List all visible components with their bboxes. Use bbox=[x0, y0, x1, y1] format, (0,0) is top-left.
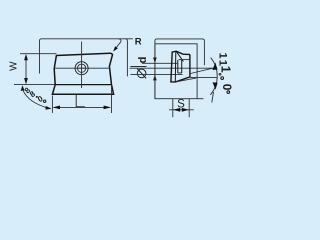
bottom-right projection line bbox=[190, 76, 217, 78]
hole top projection line bbox=[142, 62, 177, 64]
arrowhead R bbox=[113, 46, 118, 51]
arrow arc11 bottom bbox=[213, 82, 218, 89]
arrow d top (down) bbox=[153, 58, 157, 64]
slope diagonal bbox=[176, 51, 183, 61]
label 88.0deg degree circle bbox=[44, 100, 46, 102]
arrow d bottom (up) bbox=[153, 75, 157, 81]
hole bottom projection line bbox=[130, 73, 182, 75]
S extension right bbox=[188, 99, 190, 118]
arrow W top bbox=[24, 54, 28, 60]
L dimension line bbox=[54, 106, 111, 108]
extension line bottom (W / angle base) bbox=[14, 84, 55, 86]
hole outer circle bbox=[75, 62, 88, 75]
arrow arc top bbox=[21, 85, 25, 91]
L extension left bbox=[51, 96, 53, 114]
L extension right bbox=[111, 85, 113, 113]
internal edge line bbox=[55, 84, 112, 86]
svg-text:d: d bbox=[137, 57, 149, 64]
projection box side view bbox=[155, 44, 197, 99]
svg-text:1: 1 bbox=[216, 53, 228, 59]
clearance line 11deg lower bbox=[176, 78, 197, 82]
svg-text:W: W bbox=[9, 61, 20, 71]
frame leader left (thin bracket) bbox=[40, 39, 134, 74]
svg-text:R: R bbox=[135, 36, 142, 47]
leader R to corner radius bbox=[115, 39, 121, 50]
arrow W bottom bbox=[24, 78, 28, 84]
centerline through side view bbox=[130, 67, 216, 69]
arrow arc bottom bbox=[45, 106, 51, 110]
hole wall right bbox=[181, 60, 183, 73]
degree dot after 11 bbox=[221, 77, 224, 80]
side view inner left face line bbox=[174, 52, 177, 82]
arrow S left bbox=[173, 108, 180, 112]
angle arc 88deg bbox=[23, 90, 50, 109]
diameter symbol circle bbox=[137, 69, 146, 78]
tiny degree tick after bar3 bbox=[219, 73, 221, 75]
label 88.0deg char dot bbox=[36, 96, 38, 98]
frame drop line right of R bbox=[125, 39, 127, 77]
hole wall left bbox=[177, 60, 179, 73]
degree circle after 0 bbox=[227, 91, 230, 94]
centerline vertical bbox=[81, 42, 83, 89]
S dimension line bbox=[169, 109, 194, 111]
hole inner circle bbox=[77, 64, 85, 72]
arrow arc11 top bbox=[212, 63, 217, 71]
svg-text:0: 0 bbox=[220, 84, 234, 91]
arrow L left bbox=[53, 106, 60, 110]
dimension W line bbox=[25, 56, 27, 84]
extension line top (W) bbox=[20, 53, 57, 55]
side view outline bbox=[171, 51, 190, 82]
svg-text:S: S bbox=[177, 99, 185, 111]
hole bottom inside bbox=[178, 72, 182, 74]
d label underline bbox=[130, 66, 146, 68]
arc tail bottom bbox=[212, 92, 214, 103]
diameter symbol slash bbox=[137, 68, 146, 78]
arrow S right bbox=[182, 108, 189, 112]
S extension left bbox=[172, 99, 174, 118]
d dimension vertical line with corner to top frame bbox=[155, 39, 205, 99]
counterbore rim bbox=[179, 59, 190, 61]
label L (stem and foot strokes) bbox=[76, 95, 85, 107]
insert outline (top view) bbox=[52, 53, 113, 94]
centerline horizontal bbox=[54, 67, 109, 69]
clearance line 11deg upper bbox=[191, 67, 216, 73]
box bottom extension bbox=[197, 98, 203, 100]
angle arc 11deg bbox=[210, 58, 217, 95]
hole cross bbox=[78, 65, 85, 72]
svg-text:1: 1 bbox=[218, 66, 232, 73]
arrow L right bbox=[104, 106, 111, 110]
